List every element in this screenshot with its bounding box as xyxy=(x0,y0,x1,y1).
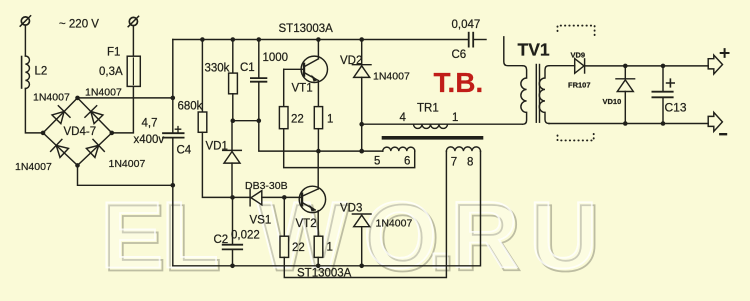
terminal X2 (mains input, right) xyxy=(128,16,138,26)
wire to C13 xyxy=(662,66,664,91)
wire VT2 emitter down xyxy=(317,211,319,237)
svg-text:0,022: 0,022 xyxy=(231,229,260,241)
wire top rail to C1 xyxy=(258,40,260,78)
svg-text:TV1: TV1 xyxy=(518,39,550,59)
svg-text:1N4007: 1N4007 xyxy=(376,217,413,229)
wire 330k to node A xyxy=(232,94,234,121)
plus output arrow xyxy=(708,55,722,74)
wire C6 to TV1 side (ends with gap) xyxy=(473,39,486,41)
wire VD2 to midpoint node xyxy=(361,77,363,151)
svg-text:1N4007: 1N4007 xyxy=(15,161,52,173)
TR1 winding 7-8 coil xyxy=(446,147,480,151)
svg-text:R: R xyxy=(450,183,519,289)
svg-text:1: 1 xyxy=(452,112,458,124)
svg-text:ST13003A: ST13003A xyxy=(297,267,352,279)
svg-text:1N4007: 1N4007 xyxy=(109,158,146,170)
label - (output) xyxy=(720,133,726,135)
svg-text:5: 5 xyxy=(374,155,380,167)
svg-text:4: 4 xyxy=(400,112,407,124)
wire bridge DC- to bus column xyxy=(78,165,173,185)
wire VD1 to diac node xyxy=(231,163,233,197)
wire DC bus column lower (node minus) xyxy=(172,138,174,266)
fuse F1 xyxy=(127,56,140,86)
diode VD9 FR107 xyxy=(575,59,585,74)
TV1 primary winding xyxy=(521,66,527,125)
junction: bridge top vertex (DC+) xyxy=(75,96,80,101)
junction C13 top xyxy=(661,64,666,69)
svg-text:F1: F1 xyxy=(107,47,120,59)
svg-text:1N4007: 1N4007 xyxy=(373,71,410,83)
resistor 1 (VT2 emitter) xyxy=(314,236,323,257)
junction C1 at top rail xyxy=(257,37,262,42)
svg-text:22: 22 xyxy=(291,113,304,125)
resistor 680k xyxy=(198,112,207,132)
junction DC+ feed xyxy=(171,96,176,101)
svg-text:C6: C6 xyxy=(452,49,467,61)
svg-text:~ 220 V: ~ 220 V xyxy=(59,19,99,31)
junction VD10 bottom xyxy=(623,121,628,126)
svg-text:330k: 330k xyxy=(205,63,230,75)
bridge diode VD6 (bottom-left arm) xyxy=(51,139,70,158)
junction midpoint at VD2 leg xyxy=(359,149,364,154)
junction midpoint at VT1 emitter leg xyxy=(316,149,321,154)
junction node A left xyxy=(231,118,236,123)
svg-text:FR107: FR107 xyxy=(568,81,591,90)
svg-text:VS1: VS1 xyxy=(250,214,272,226)
wire C1 to node A xyxy=(258,82,260,121)
svg-text:C2: C2 xyxy=(214,234,229,246)
svg-text:22: 22 xyxy=(292,242,305,254)
wire top rail to 330k xyxy=(232,40,234,74)
wire C13 to minus wire xyxy=(662,98,664,124)
TV1 secondary winding xyxy=(539,66,549,124)
junction VD10 top xyxy=(623,64,628,69)
svg-text:VD3: VD3 xyxy=(340,203,362,215)
diode VD1 xyxy=(223,150,242,163)
diac VS1 DB3-30B xyxy=(250,190,262,206)
terminal X1 (mains input, left) xyxy=(20,16,30,26)
svg-text:680k: 680k xyxy=(178,101,203,113)
svg-text:C13: C13 xyxy=(665,101,687,115)
wire node A xyxy=(233,120,259,122)
junction: bridge bottom vertex (DC-) xyxy=(75,163,80,168)
wire TR1 winding 4-1 line to TV1 primary xyxy=(362,123,523,125)
wire DC bus column upper (node +310V) xyxy=(172,40,174,133)
wire VT1 emitter resistor to midpoint xyxy=(317,129,319,151)
wire top supply rail xyxy=(173,39,469,41)
junction midpoint at TR1 pin 5 leg xyxy=(359,149,364,154)
resistor 1 (VT1 emitter) xyxy=(314,107,322,129)
resistor 330k xyxy=(229,73,238,94)
svg-text:L2: L2 xyxy=(35,65,48,77)
junction bottom rail at VT2 emitter leg xyxy=(316,264,321,269)
resistor 22 (VT2 base) xyxy=(280,236,289,257)
junction node B xyxy=(230,195,235,200)
junction: bridge left vertex (AC) xyxy=(41,131,46,136)
junction DC- feed xyxy=(171,183,176,188)
junction 330k at top rail xyxy=(231,37,236,42)
capacitor C4 (electrolytic, polarity +) xyxy=(163,127,184,138)
wire VD3 to bottom rail xyxy=(361,227,363,266)
wire C2 to bottom rail xyxy=(232,250,234,266)
svg-text:C4: C4 xyxy=(177,145,192,157)
svg-text:VD2: VD2 xyxy=(340,55,362,67)
junction VD2 at top rail xyxy=(359,37,364,42)
wire VT2 emitter resistor to bottom rail xyxy=(317,257,319,265)
svg-text:1000: 1000 xyxy=(263,52,289,64)
svg-text:TR1: TR1 xyxy=(417,103,439,115)
svg-text:1N4007: 1N4007 xyxy=(85,87,122,99)
wire TV1 primary top lead xyxy=(504,37,523,66)
capacitor C13 (electrolytic, polarity +) xyxy=(652,79,674,97)
svg-text:VD1: VD1 xyxy=(206,141,228,153)
wire node B to C2 xyxy=(232,197,234,244)
wire VT1 base down xyxy=(283,69,285,106)
wire VD10 to minus wire xyxy=(624,92,626,124)
junction TR1 pin4 tap xyxy=(359,122,364,127)
capacitor C2 xyxy=(223,245,243,250)
svg-text:1: 1 xyxy=(327,113,333,125)
svg-text:x400v: x400v xyxy=(134,134,165,146)
svg-text:Т.В.: Т.В. xyxy=(434,67,484,98)
svg-text:DB3-30B: DB3-30B xyxy=(245,180,288,192)
shield dashed bracket top xyxy=(558,26,595,36)
wire TV1 secondary bottom to minus output xyxy=(549,123,708,125)
TR1 winding 5-6 coil xyxy=(383,147,415,151)
capacitor C1 xyxy=(251,78,267,82)
transistor VT1 xyxy=(284,56,327,82)
svg-text:4,7: 4,7 xyxy=(142,118,158,130)
svg-text:VD10: VD10 xyxy=(603,97,622,106)
capacitor C6 xyxy=(469,33,474,47)
resistor 22 (VT1 base) xyxy=(279,107,288,129)
wire VT2 base down xyxy=(283,197,285,236)
diode VD3 xyxy=(352,214,371,227)
wire node B to diac xyxy=(233,196,251,198)
wire fuse to bridge right vertex xyxy=(112,86,134,132)
bridge rectifier VD4-7 diamond frame xyxy=(43,98,112,165)
TR1 core bar xyxy=(382,136,484,140)
wire terminal X2 to fuse xyxy=(132,26,134,57)
shield dashed bracket bottom xyxy=(558,134,594,141)
svg-text:1N4007: 1N4007 xyxy=(33,92,70,104)
diode VD2 xyxy=(352,65,371,78)
transistor VT2 xyxy=(262,186,326,212)
svg-text:C1: C1 xyxy=(240,62,255,74)
wire VT1 collector to top rail xyxy=(317,40,319,59)
junction VT1 collector at top rail xyxy=(316,37,321,42)
svg-text:VT1: VT1 xyxy=(292,83,313,95)
svg-text:6: 6 xyxy=(404,155,410,167)
label + (output) xyxy=(721,49,729,57)
TR1 winding 4-1 coil xyxy=(414,124,448,128)
wire bottom supply rail (to TR1 pin 8) xyxy=(173,151,481,266)
junction: bridge right vertex (AC) xyxy=(110,131,115,136)
svg-text:L: L xyxy=(161,183,219,289)
bridge diode VD4 (top-left arm) xyxy=(51,106,70,125)
junction VT2 base node xyxy=(282,195,287,200)
wire VT1 base resistor to TR1 pin 6 xyxy=(284,129,415,168)
wire VT2 collector to midpoint xyxy=(317,151,319,189)
diode VD10 xyxy=(616,79,635,92)
minus output arrow xyxy=(708,112,722,131)
svg-text:0,047: 0,047 xyxy=(452,19,481,31)
svg-text:VD4-7: VD4-7 xyxy=(64,126,97,138)
wire node A to VD1 xyxy=(231,121,233,151)
junction bottom rail at VD3 xyxy=(359,264,364,269)
bridge diode VD5 (top-right arm) xyxy=(85,106,104,125)
wire bridge DC+ to bus column xyxy=(78,97,173,99)
wire VD9 to plus output xyxy=(585,65,709,67)
svg-text:0,3A: 0,3A xyxy=(99,66,123,78)
junction 680k at top rail xyxy=(200,37,205,42)
wire TV1 secondary top to VD9 xyxy=(549,65,575,67)
svg-text:U: U xyxy=(529,183,598,289)
wire terminal X1 to L2 xyxy=(24,25,26,56)
TV1 core line left xyxy=(535,65,537,123)
wire VT1 emitter down xyxy=(317,81,319,107)
svg-text:8: 8 xyxy=(467,157,473,169)
junction node A right xyxy=(257,118,262,123)
wire L2 to bridge left vertex xyxy=(25,89,43,133)
wire top rail to 680k xyxy=(201,40,203,113)
svg-text:E: E xyxy=(100,183,163,289)
junction bottom rail at C2 xyxy=(230,264,235,269)
wire top rail to VD2 xyxy=(361,40,363,65)
svg-text:VT2: VT2 xyxy=(296,218,317,230)
junction C13 bottom xyxy=(661,121,666,126)
wire node A down to midpoint line xyxy=(259,121,383,151)
wire 680k to diac node xyxy=(202,132,232,197)
TV1 core line right xyxy=(539,65,541,123)
bridge diode VD7 (bottom-right arm) xyxy=(85,139,104,158)
svg-text:ST13003A: ST13003A xyxy=(279,23,334,35)
wire to VD10 xyxy=(624,66,626,79)
wire VT2 base resistor to TR1 pin 7 xyxy=(284,151,446,277)
svg-text:O: O xyxy=(363,183,437,289)
svg-text:7: 7 xyxy=(451,157,457,169)
svg-text:VD9: VD9 xyxy=(571,51,586,60)
inductor L2 xyxy=(22,56,30,88)
svg-text:1: 1 xyxy=(327,242,333,254)
